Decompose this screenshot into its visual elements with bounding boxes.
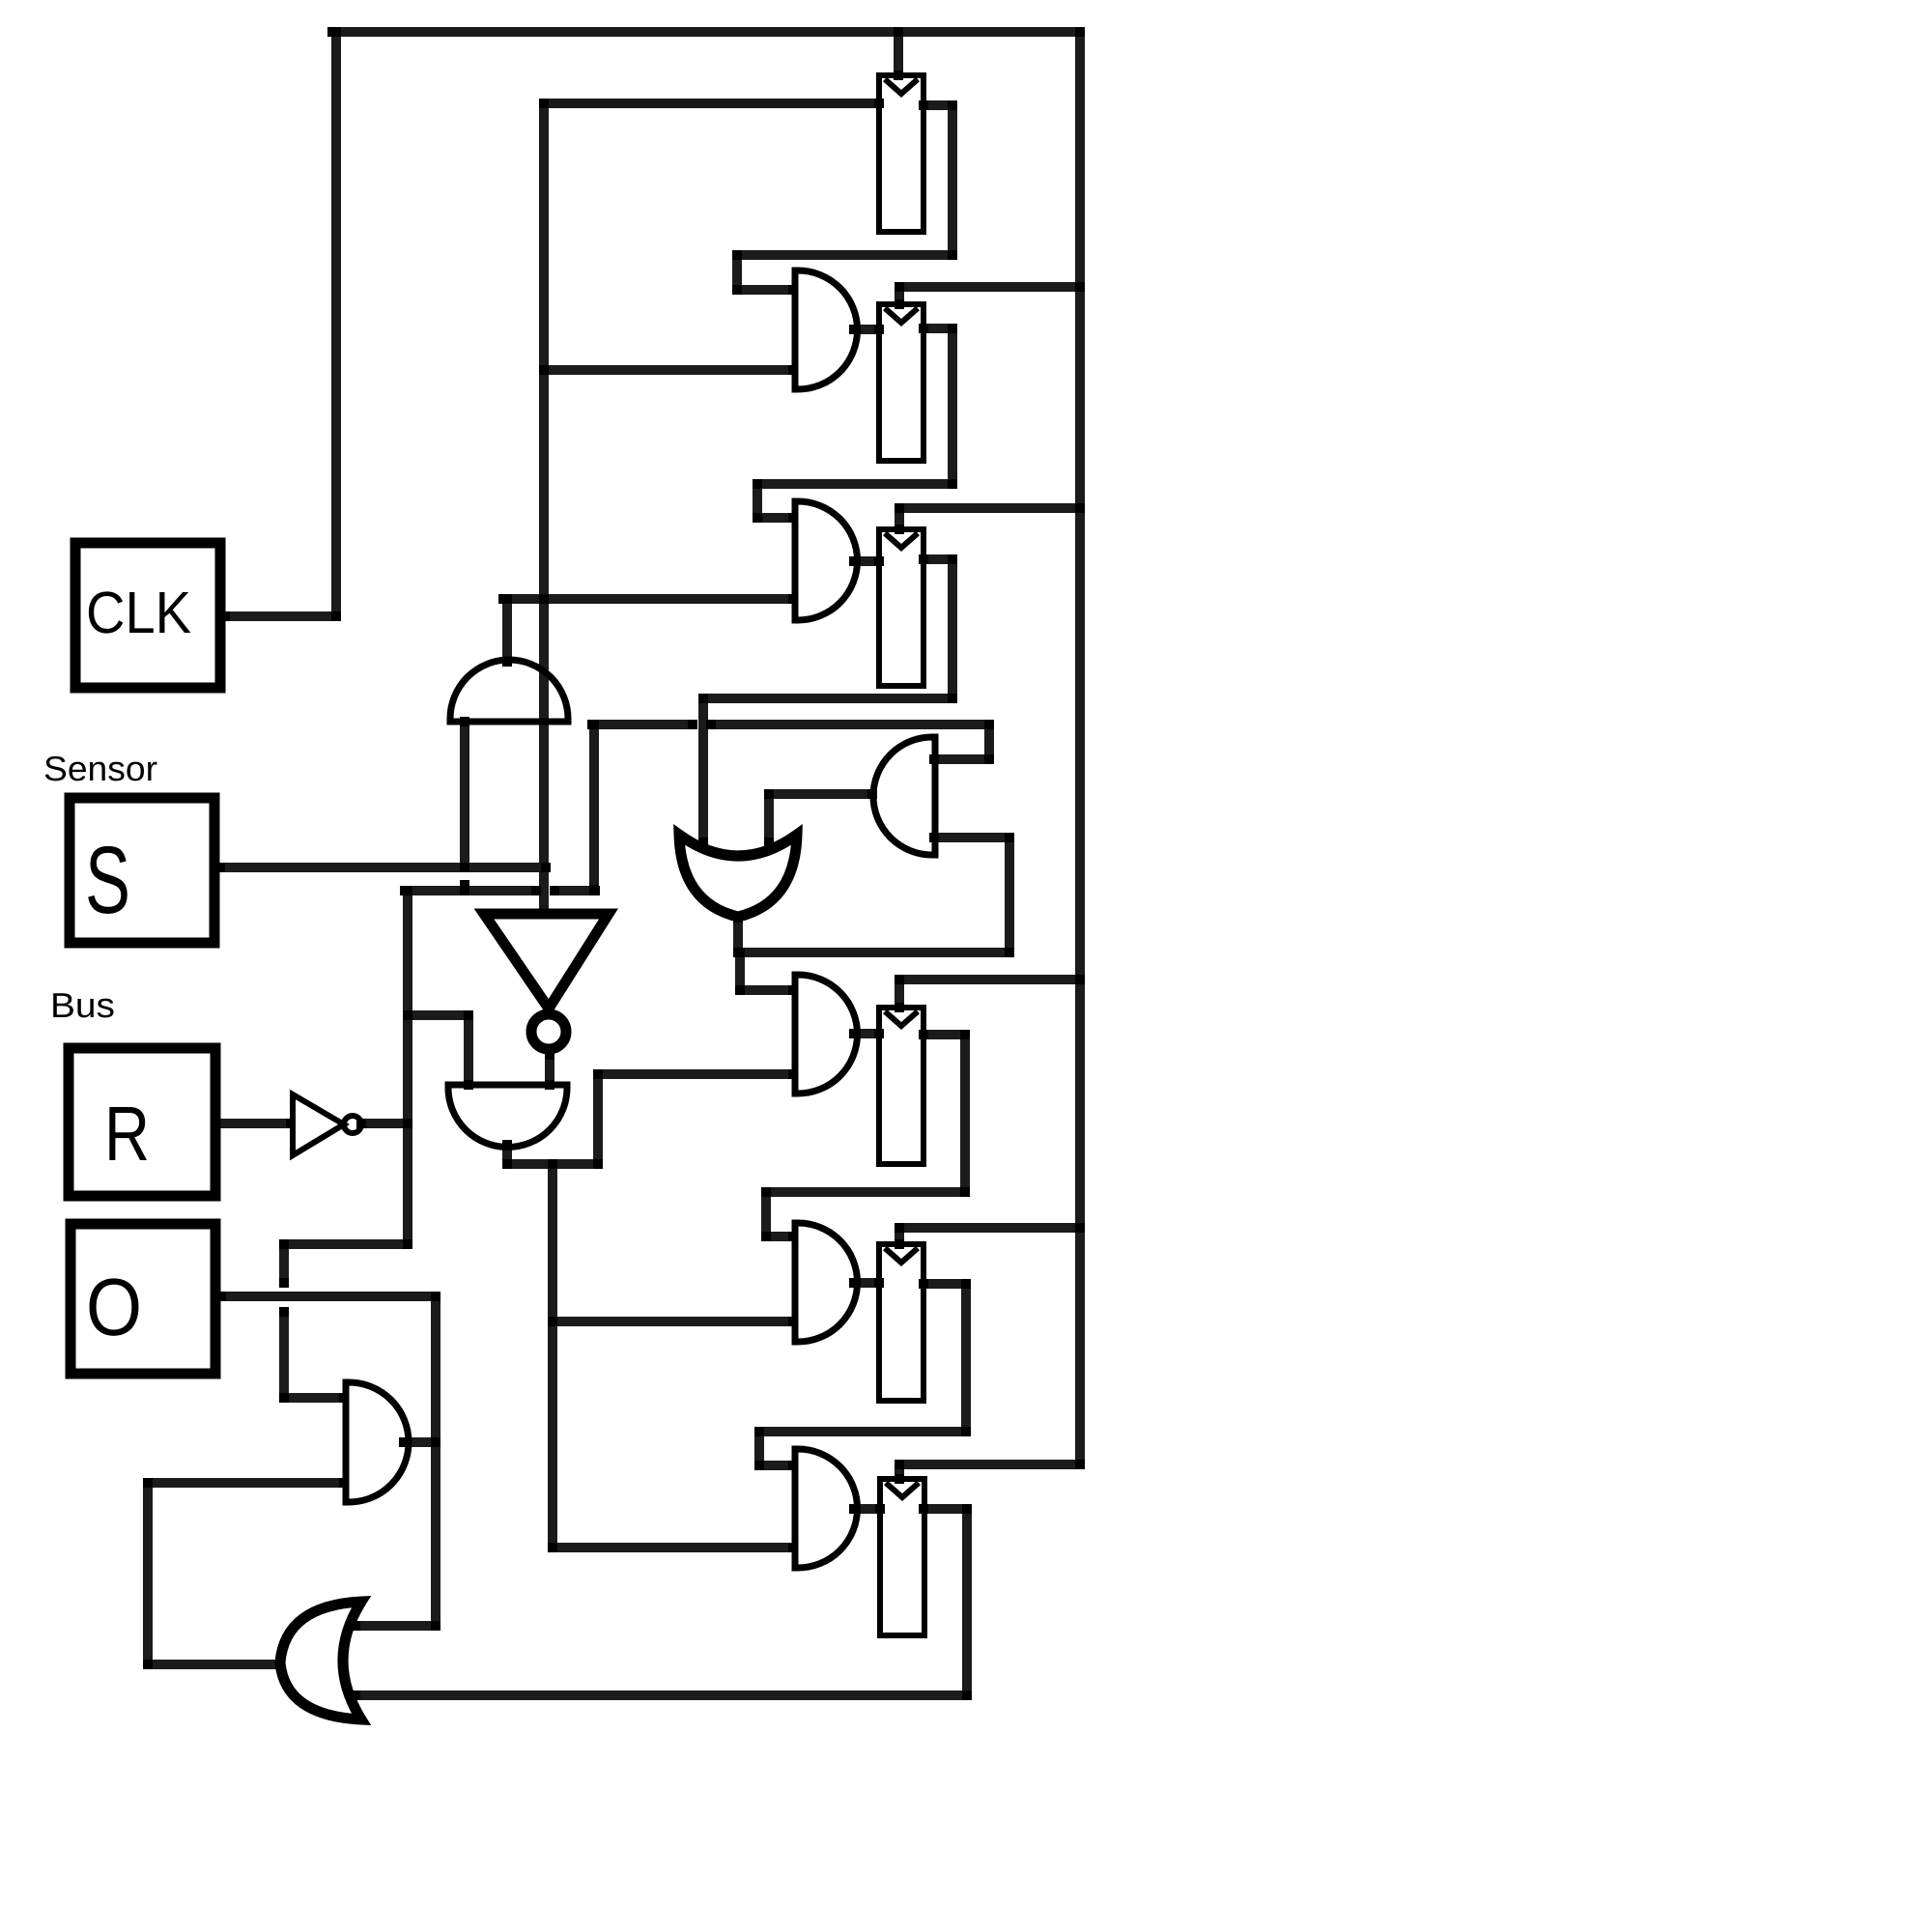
flip-flop R4 (879, 1008, 923, 1164)
wire R4 output to A5 upper input (766, 1035, 965, 1236)
AND gate A4 (795, 975, 858, 1094)
wire S output (220, 863, 546, 872)
wire A2 output to R3 (854, 556, 879, 566)
wire vertical net x422 (403, 891, 412, 1244)
wire dome output stub (502, 599, 512, 662)
wire bowl net vertical x572 (548, 1164, 557, 1548)
wire A1 output to R2 (854, 325, 879, 334)
wire y922 right piece (554, 886, 595, 895)
wire R6 output to OR lower input (355, 1509, 967, 1695)
wire top clock rail (332, 27, 1080, 37)
AND gate A3 left-facing (873, 737, 935, 855)
flip-flop R1 (879, 75, 923, 232)
output box O (71, 1224, 215, 1374)
flip-flop R2 (879, 304, 923, 461)
wire junction dots (143, 27, 1085, 1700)
AND gate bowl pointing down (448, 1085, 567, 1148)
input box S (70, 798, 214, 943)
wire inverter output (361, 1119, 408, 1128)
wire OR-cup output (738, 918, 1009, 952)
wire R1 D input (544, 99, 879, 108)
wire vertical x615 (589, 724, 599, 891)
wire clock rail right vertical (1075, 32, 1085, 1464)
AND gate A7 bottom left (346, 1382, 409, 1502)
flip-flop R3 (879, 529, 923, 686)
AND gate A1 (795, 270, 858, 389)
wire R3 clock branch (899, 508, 1080, 529)
wire A6 lower input (553, 1543, 793, 1552)
wire A-left upper input (934, 724, 989, 759)
input box R (69, 1048, 215, 1196)
inverter U2 triangle (293, 1094, 344, 1155)
wire NOT bubble to bowl (545, 1055, 554, 1085)
AND gate A5 (795, 1223, 858, 1342)
wire R2 output to A2 upper input (757, 328, 952, 518)
input box CLK (75, 543, 220, 688)
wire R1 output to A1 upper input (737, 105, 952, 290)
svg-text:R: R (104, 1091, 150, 1177)
wire A-BL output (404, 1437, 436, 1447)
wire vertical net x451 (431, 1296, 440, 1626)
flip-flop R5 (879, 1244, 923, 1401)
wire R5 output to A6 upper input (759, 1284, 966, 1465)
wire vertical net x563 (539, 103, 549, 914)
wire R6 clock branch (899, 1464, 1080, 1479)
wire to A-BL upper lower piece (284, 1312, 344, 1398)
wire OR upper input (355, 1621, 436, 1631)
wire CLK vertical riser (331, 32, 341, 616)
wire A1 lower input (544, 365, 793, 375)
wire R3 output to OR-cup left input (703, 559, 952, 842)
AND gate A6 (795, 1449, 858, 1568)
wire R box to inverter (215, 1119, 291, 1128)
AND gate dome pointing up (450, 660, 568, 722)
wire O output (221, 1292, 436, 1301)
wire CLK output (225, 611, 336, 621)
inverter U2 bubble (344, 1116, 361, 1133)
flip-flop R6 (880, 1479, 924, 1635)
wire y750 right piece (711, 720, 989, 729)
svg-text:O: O (86, 1262, 142, 1352)
svg-text:CLK: CLK (86, 580, 191, 645)
wire A2 lower input (503, 594, 793, 604)
wire A-BL lower input loop (148, 1483, 344, 1664)
wire A5 output to R5 (854, 1278, 879, 1288)
wire y922 left piece (405, 886, 536, 895)
wire R4 clock branch (899, 980, 1080, 1008)
wire dome left leg (460, 722, 469, 867)
wire to A-BL upper via y1288 (284, 1244, 408, 1283)
AND gate A2 (795, 501, 858, 620)
wire R2 clock branch (899, 287, 1080, 304)
wire A4 output to R4 (854, 1029, 879, 1038)
wire A-left output to OR-cup right input (769, 794, 872, 842)
wire bowl left input branch (408, 1015, 469, 1085)
NOT gate triangle (484, 914, 609, 1009)
wire A6 output to R6 (854, 1504, 880, 1514)
wire A4 upper input branch (740, 952, 793, 990)
wire A5 lower input (553, 1317, 793, 1326)
wire A-left lower input (934, 838, 1009, 952)
OR gate cup pointing down (679, 835, 797, 917)
wire R1 clock stub (894, 32, 903, 75)
svg-text:Bus: Bus (50, 985, 115, 1025)
OR gate pointing left (280, 1602, 361, 1719)
wire y750 left piece (592, 720, 693, 729)
wire bowl output (507, 1074, 793, 1164)
svg-text:S: S (85, 826, 130, 933)
wire R5 clock branch (899, 1228, 1080, 1244)
wire dome leg lower stub (460, 885, 469, 891)
NOT gate bubble (531, 1014, 566, 1049)
svg-text:Sensor: Sensor (43, 749, 157, 788)
